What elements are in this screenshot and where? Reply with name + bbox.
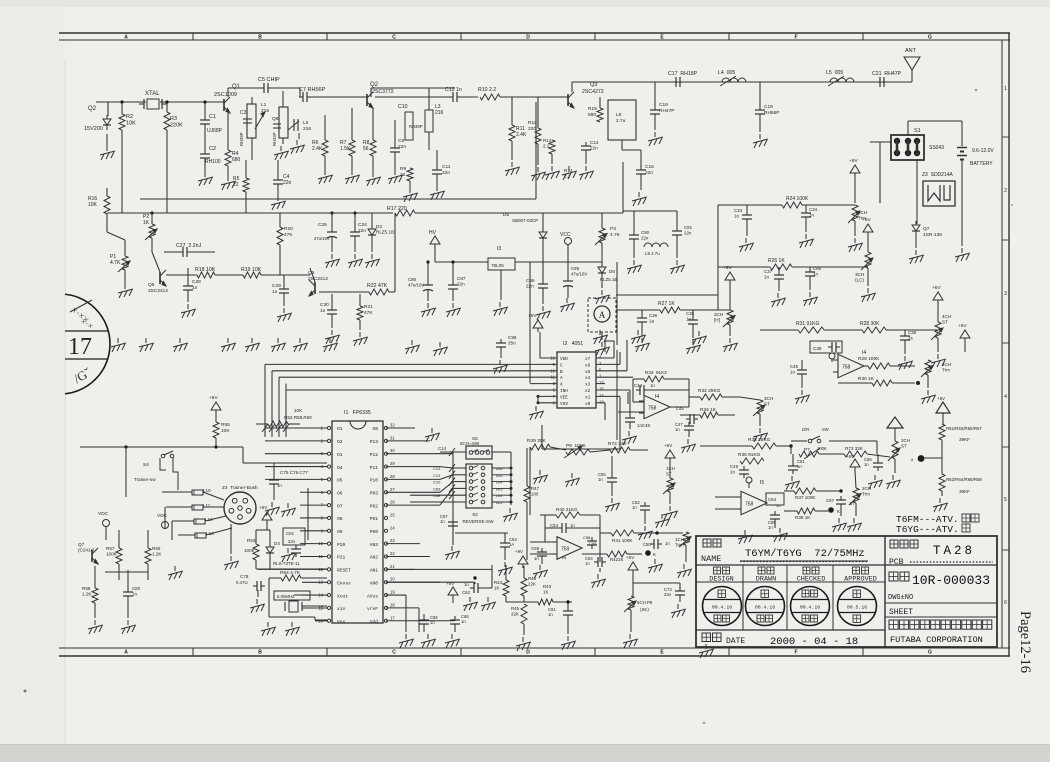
svg-text:22n: 22n <box>283 180 292 186</box>
svg-text:I3: I3 <box>497 246 501 252</box>
svg-text:00.4.18: 00.4.18 <box>755 604 775 610</box>
svg-text:R14: R14 <box>564 168 573 173</box>
svg-text:(LC): (LC) <box>855 278 864 283</box>
svg-text:2.4K: 2.4K <box>516 132 527 138</box>
svg-text:22: 22 <box>390 551 395 556</box>
svg-text:100K: 100K <box>244 548 256 553</box>
svg-text:R37 100K: R37 100K <box>795 495 816 500</box>
svg-text:1n: 1n <box>790 369 795 374</box>
svg-text:P20: P20 <box>337 542 346 548</box>
svg-text:ch3: ch3 <box>496 486 503 491</box>
svg-text:C11: C11 <box>442 164 451 170</box>
svg-text:INH: INH <box>560 389 568 394</box>
svg-text:22n: 22n <box>590 146 598 151</box>
svg-text:ST: ST <box>942 320 948 325</box>
svg-text:C69: C69 <box>433 486 441 491</box>
svg-text:DATE: DATE <box>726 637 745 646</box>
svg-text:I5: I5 <box>562 555 566 561</box>
svg-text:1: 1 <box>1004 86 1007 92</box>
svg-text:C: C <box>392 35 396 41</box>
svg-text:56: 56 <box>363 146 369 152</box>
svg-text:B: B <box>258 35 262 41</box>
svg-text:1a: 1a <box>649 318 654 323</box>
svg-text:2.7u: 2.7u <box>616 118 626 124</box>
svg-text:C39: C39 <box>908 330 917 335</box>
svg-text:R3: R3 <box>170 116 177 122</box>
svg-text:1n: 1n <box>734 213 739 218</box>
svg-text:39KF: 39KF <box>959 437 970 442</box>
svg-text:R47: R47 <box>531 486 540 491</box>
svg-text:D3: D3 <box>376 224 382 229</box>
svg-text:C87: C87 <box>457 276 466 281</box>
svg-text:22n: 22n <box>684 230 692 235</box>
svg-text:32: 32 <box>390 423 395 428</box>
svg-text:3CH: 3CH <box>858 210 867 215</box>
svg-text:26: 26 <box>390 500 395 505</box>
svg-text:2SC2412: 2SC2412 <box>308 276 328 282</box>
svg-text:C5 CHIP: C5 CHIP <box>258 77 280 83</box>
svg-text:C78: C78 <box>240 574 249 579</box>
svg-text:O6: O6 <box>337 490 343 496</box>
svg-text:DESIGN: DESIGN <box>709 576 733 584</box>
svg-text:22n: 22n <box>526 284 534 289</box>
svg-text:1n: 1n <box>632 505 637 510</box>
svg-text:Trm: Trm <box>862 492 870 497</box>
svg-text:UJ68P: UJ68P <box>207 128 223 134</box>
svg-text:1n: 1n <box>665 541 670 546</box>
svg-text:F: F <box>794 35 797 41</box>
svg-text:1K: 1K <box>543 589 548 594</box>
svg-text:C30: C30 <box>320 302 329 308</box>
svg-text:C29: C29 <box>272 283 281 289</box>
svg-text:C96: C96 <box>508 335 517 340</box>
svg-text:1n: 1n <box>809 212 814 217</box>
svg-text:14: 14 <box>599 393 604 398</box>
svg-text:R53: R53 <box>247 538 256 543</box>
svg-text:00.5.16: 00.5.16 <box>847 604 867 610</box>
svg-text:I2 4051: I2 4051 <box>563 341 583 347</box>
svg-text:Xout: Xout <box>337 593 348 599</box>
svg-text:Z4 Trainer-Bush: Z4 Trainer-Bush <box>222 485 258 491</box>
svg-text:1n: 1n <box>797 464 802 469</box>
svg-text:APPROVED: APPROVED <box>844 576 877 584</box>
svg-text:1.2K: 1.2K <box>152 552 162 557</box>
svg-text:RLS-73TE-11: RLS-73TE-11 <box>273 561 300 566</box>
svg-text:O2: O2 <box>337 439 343 445</box>
svg-text:6: 6 <box>1004 600 1007 606</box>
svg-text:758: 758 <box>842 365 851 371</box>
svg-text:3: 3 <box>1004 291 1007 297</box>
svg-text:31: 31 <box>390 435 395 440</box>
svg-text:216: 216 <box>303 126 311 132</box>
svg-text:R56: R56 <box>152 546 161 551</box>
svg-text:22n: 22n <box>457 282 465 287</box>
svg-text:1.2K: 1.2K <box>82 592 92 597</box>
svg-text:R33 91K3: R33 91K3 <box>645 370 667 375</box>
svg-text:1n: 1n <box>686 316 691 321</box>
svg-text:Cnvss: Cnvss <box>337 580 351 586</box>
svg-text:R29 100K: R29 100K <box>858 356 880 362</box>
svg-text:L9 2.7u: L9 2.7u <box>645 251 660 256</box>
svg-text:C14: C14 <box>590 140 599 145</box>
svg-text:R43: R43 <box>494 580 503 585</box>
svg-text:1n: 1n <box>570 523 575 528</box>
svg-text:VCC: VCC <box>560 232 571 238</box>
svg-text:Q3: Q3 <box>590 82 597 88</box>
svg-text:R52,R59,R60: R52,R59,R60 <box>284 415 312 420</box>
svg-text:L6: L6 <box>616 112 622 118</box>
svg-text:22n: 22n <box>442 170 450 176</box>
svg-text:22n: 22n <box>288 539 296 544</box>
svg-text:22: 22 <box>233 182 239 188</box>
svg-text:C84: C84 <box>768 497 777 502</box>
svg-text:4CH: 4CH <box>942 362 951 367</box>
svg-text:DWG±NO: DWG±NO <box>888 594 913 602</box>
svg-text:R38 1K: R38 1K <box>795 515 811 520</box>
svg-text:C21 RH47P: C21 RH47P <box>872 71 902 77</box>
svg-text:R421K: R421K <box>610 557 623 562</box>
svg-text:24: 24 <box>390 525 395 530</box>
svg-text:1n: 1n <box>430 620 435 625</box>
svg-text:Q7: Q7 <box>78 542 85 547</box>
svg-text:2CH: 2CH <box>901 438 910 443</box>
svg-text:I5: I5 <box>760 480 764 486</box>
svg-text:D: D <box>526 650 530 656</box>
svg-text:O0: O0 <box>372 426 378 432</box>
svg-text:C36: C36 <box>649 313 658 318</box>
svg-text:3CH: 3CH <box>714 312 723 317</box>
svg-text:+6V: +6V <box>626 555 635 560</box>
svg-text:C7 RH56P: C7 RH56P <box>299 87 326 93</box>
svg-text:L1: L1 <box>261 102 267 108</box>
svg-text:22K: 22K <box>511 611 519 616</box>
svg-text:SS043: SS043 <box>929 145 944 151</box>
svg-text:220: 220 <box>528 126 536 132</box>
svg-text:22n: 22n <box>358 228 366 234</box>
svg-text:+6V: +6V <box>958 323 967 329</box>
svg-text:G: G <box>928 650 932 656</box>
svg-text:R43: R43 <box>543 584 552 589</box>
svg-text:A: A <box>599 310 606 320</box>
svg-text:759: 759 <box>561 547 570 553</box>
svg-text:C18: C18 <box>659 102 668 108</box>
svg-text:1K: 1K <box>143 220 150 226</box>
svg-text:+6V: +6V <box>862 217 871 223</box>
svg-text:17: 17 <box>390 615 395 620</box>
svg-text:+9V: +9V <box>515 549 523 554</box>
svg-text:I1 FP6335: I1 FP6335 <box>344 410 371 416</box>
svg-text:D5: D5 <box>503 212 509 218</box>
svg-text:22n: 22n <box>645 170 653 176</box>
svg-text:R34 1K: R34 1K <box>700 407 717 413</box>
svg-text:L4 005: L4 005 <box>718 70 735 76</box>
svg-text:ST: ST <box>764 402 770 407</box>
svg-text:C9: C9 <box>398 138 404 144</box>
svg-text:C38: C38 <box>813 346 822 351</box>
svg-text:19: 19 <box>390 590 395 595</box>
svg-text:00.4.18: 00.4.18 <box>800 604 820 610</box>
svg-text:R27 1K: R27 1K <box>658 301 675 307</box>
svg-text:22n: 22n <box>641 235 649 240</box>
svg-text:1n: 1n <box>813 271 818 276</box>
svg-text:AVss: AVss <box>367 593 378 599</box>
svg-text:C49: C49 <box>730 464 739 469</box>
svg-text:AN1: AN1 <box>370 568 379 574</box>
svg-text:15V200: 15V200 <box>84 126 103 132</box>
svg-text:A: A <box>124 650 128 656</box>
svg-text:21: 21 <box>390 564 395 569</box>
svg-text:I4: I4 <box>862 350 866 356</box>
svg-text:P6 100K: P6 100K <box>566 443 587 449</box>
svg-text:758: 758 <box>648 406 657 412</box>
svg-text:D6: D6 <box>609 269 615 274</box>
svg-text:758: 758 <box>745 502 754 508</box>
svg-text:R30 1K: R30 1K <box>858 376 875 382</box>
svg-text:2.2: 2.2 <box>543 144 550 149</box>
svg-text:28: 28 <box>390 474 395 479</box>
svg-text:C89: C89 <box>571 266 580 271</box>
svg-text:x3: x3 <box>585 383 591 388</box>
svg-text:+6V: +6V <box>846 454 854 459</box>
svg-text:VDD: VDD <box>560 357 568 362</box>
svg-text:VDC: VDC <box>98 511 109 517</box>
svg-text:R20: R20 <box>284 226 293 232</box>
svg-text:2SC4272: 2SC4272 <box>582 89 604 95</box>
svg-text:S1: S1 <box>914 128 921 134</box>
svg-text:SB007-03CP: SB007-03CP <box>512 218 538 223</box>
svg-text:RH39P: RH39P <box>409 124 423 129</box>
svg-text:A: A <box>124 35 128 41</box>
svg-text:C12 1n: C12 1n <box>445 87 462 93</box>
svg-text:47K: 47K <box>284 232 293 238</box>
svg-text:RH33P: RH33P <box>272 132 277 146</box>
svg-text:1SR-139: 1SR-139 <box>923 232 942 238</box>
svg-text:1nC48: 1nC48 <box>637 423 650 428</box>
svg-text:[H]: [H] <box>714 318 720 323</box>
svg-text:R2: R2 <box>126 114 133 120</box>
svg-text:10K: 10K <box>221 428 230 434</box>
svg-text:T6YG---ATV.: T6YG---ATV. <box>896 524 959 535</box>
svg-text:O8: O8 <box>337 516 343 522</box>
svg-text:4CH: 4CH <box>942 314 951 319</box>
svg-text:C66: C66 <box>526 278 535 283</box>
svg-text:B: B <box>560 370 563 375</box>
svg-text:C15: C15 <box>645 164 654 170</box>
svg-text:17: 17 <box>68 334 92 360</box>
svg-text:B: B <box>258 650 262 656</box>
svg-text:+6V: +6V <box>849 158 858 164</box>
svg-text:BATTERY: BATTERY <box>970 161 993 167</box>
svg-text:(SK): (SK) <box>640 607 649 612</box>
svg-text:O7: O7 <box>337 503 343 509</box>
svg-text:1n: 1n <box>598 477 603 482</box>
svg-text:Vss: Vss <box>337 619 346 625</box>
svg-text:1n: 1n <box>461 619 466 624</box>
svg-text:6CH P8: 6CH P8 <box>637 600 653 605</box>
svg-text:D4: D4 <box>274 541 280 546</box>
svg-text:O1: O1 <box>337 452 343 458</box>
svg-text:x4: x4 <box>585 376 591 381</box>
svg-text:R32 25KG: R32 25KG <box>698 388 721 394</box>
svg-text:2000 - 04 - 18: 2000 - 04 - 18 <box>770 636 858 648</box>
svg-text:VDC: VDC <box>157 513 168 519</box>
svg-text:C86: C86 <box>408 277 417 282</box>
svg-text:20: 20 <box>390 577 395 582</box>
svg-text:2SC2412: 2SC2412 <box>148 288 168 294</box>
svg-text:C25: C25 <box>318 222 327 228</box>
svg-text:x0: x0 <box>585 402 591 407</box>
svg-text:39KF: 39KF <box>959 489 970 494</box>
svg-text:C10: C10 <box>433 480 441 485</box>
svg-text:1K: 1K <box>494 585 499 590</box>
svg-text:A: A <box>560 376 563 381</box>
svg-text:C90: C90 <box>641 230 650 235</box>
svg-text:PCB: PCB <box>889 558 904 567</box>
svg-text:C: C <box>392 650 396 656</box>
svg-text:C45: C45 <box>790 364 799 369</box>
svg-text:00.4.18: 00.4.18 <box>712 604 732 610</box>
svg-text:Q7: Q7 <box>923 226 930 232</box>
svg-text:30: 30 <box>390 448 395 453</box>
svg-text:S4: S4 <box>143 462 149 468</box>
svg-text:1n: 1n <box>464 582 469 587</box>
svg-text:P13: P13 <box>370 439 379 445</box>
svg-text:+6V: +6V <box>932 285 941 291</box>
svg-text:1n: 1n <box>768 525 773 530</box>
svg-text:C58: C58 <box>583 535 591 540</box>
svg-text:RESET: RESET <box>337 568 351 574</box>
svg-text:216: 216 <box>435 110 444 116</box>
svg-text:25: 25 <box>390 512 395 517</box>
svg-text:R41 100K: R41 100K <box>612 538 633 543</box>
svg-text:+6V: +6V <box>259 505 268 510</box>
svg-text:VEE: VEE <box>560 395 568 400</box>
svg-text:C44: C44 <box>634 383 643 388</box>
svg-text:C1: C1 <box>209 114 216 120</box>
svg-text:C34: C34 <box>809 207 818 212</box>
svg-text:RH100: RH100 <box>205 159 221 165</box>
svg-text:1n: 1n <box>864 462 869 467</box>
svg-text:Page12-16: Page12-16 <box>1017 611 1033 673</box>
svg-text:P00: P00 <box>370 529 379 535</box>
svg-text:C80: C80 <box>132 586 141 591</box>
svg-text:Q2: Q2 <box>370 82 379 88</box>
svg-text:R35 25KG: R35 25KG <box>748 437 771 443</box>
svg-text:K: K <box>653 552 656 557</box>
svg-text:R62/R64/R66/R68: R62/R64/R66/R68 <box>946 477 982 482</box>
svg-text:P7: P7 <box>804 447 810 452</box>
svg-text:R55: R55 <box>221 422 230 428</box>
svg-text:P11: P11 <box>370 465 379 471</box>
svg-text:C17 RH18P: C17 RH18P <box>668 71 698 77</box>
svg-text:4.7K: 4.7K <box>110 260 121 266</box>
svg-text:R17 220: R17 220 <box>387 206 407 212</box>
svg-text:C3: C3 <box>240 110 247 116</box>
svg-text:x5: x5 <box>585 370 591 375</box>
svg-text:22K: 22K <box>528 581 536 586</box>
svg-text:RH47P: RH47P <box>659 108 674 114</box>
svg-text:15: 15 <box>599 387 604 392</box>
svg-text:78L05: 78L05 <box>491 263 504 268</box>
svg-text:AN2: AN2 <box>370 555 379 561</box>
svg-text:C27 2.2nJ: C27 2.2nJ <box>176 243 201 249</box>
svg-text:xin: xin <box>337 606 346 612</box>
svg-text:I4: I4 <box>655 394 659 400</box>
svg-text:HV: HV <box>429 230 437 236</box>
svg-text:ch6: ch6 <box>496 466 503 471</box>
svg-text:RLZ5.1B: RLZ5.1B <box>376 230 394 235</box>
svg-text:ANT: ANT <box>905 48 917 54</box>
svg-text:AN0: AN0 <box>370 580 379 586</box>
svg-text:100: 100 <box>531 491 539 496</box>
svg-text:C81: C81 <box>286 531 295 536</box>
svg-text:C75.C76.C77: C75.C76.C77 <box>280 470 308 475</box>
svg-text:10K: 10K <box>294 408 303 413</box>
svg-text:23: 23 <box>390 538 395 543</box>
svg-text:1n: 1n <box>192 285 198 291</box>
svg-text:+6V: +6V <box>937 396 945 401</box>
svg-text:12: 12 <box>599 380 604 385</box>
svg-text:S2: S2 <box>472 512 478 517</box>
svg-text:R57: R57 <box>106 546 115 551</box>
svg-text:ch4: ch4 <box>496 480 503 485</box>
svg-text:2SC1009: 2SC1009 <box>214 92 237 98</box>
svg-text:P02: P02 <box>370 503 379 509</box>
svg-text:O1: O1 <box>337 426 343 432</box>
svg-text:22: 22 <box>400 172 406 178</box>
svg-text:1n: 1n <box>650 383 655 388</box>
svg-text:680: 680 <box>588 112 596 118</box>
svg-text:G: G <box>928 35 932 41</box>
svg-text:R18 10K: R18 10K <box>195 267 216 273</box>
svg-text:1n: 1n <box>776 503 780 508</box>
svg-text:R54 4.7K: R54 4.7K <box>280 570 301 576</box>
svg-text:R24 100K: R24 100K <box>786 196 809 202</box>
svg-text:C14: C14 <box>438 446 447 451</box>
svg-text:Z3 SDD214A: Z3 SDD214A <box>922 172 954 178</box>
svg-text:1n: 1n <box>730 469 735 474</box>
svg-text:C13: C13 <box>433 473 441 478</box>
svg-text:13: 13 <box>599 399 604 404</box>
svg-text:2SC3772: 2SC3772 <box>372 89 394 95</box>
svg-text:P01: P01 <box>370 516 379 522</box>
svg-text:F: F <box>794 650 797 656</box>
svg-text:T6YM/T6YG 72/75MHz: T6YM/T6YG 72/75MHz <box>745 548 865 560</box>
svg-text:R31 91KG: R31 91KG <box>796 321 819 327</box>
svg-text:P03: P03 <box>370 490 379 496</box>
svg-text:R73 33K: R73 33K <box>845 446 864 451</box>
svg-text:1s: 1s <box>908 335 913 340</box>
svg-text:R21: R21 <box>364 304 373 310</box>
svg-text:1n: 1n <box>675 427 680 432</box>
svg-text:C91: C91 <box>684 225 693 230</box>
svg-text:X: X <box>560 383 563 388</box>
svg-text:R13: R13 <box>543 138 552 143</box>
svg-text:O9: O9 <box>337 529 343 535</box>
svg-text:x2: x2 <box>585 389 591 394</box>
svg-text:x1: x1 <box>585 395 591 400</box>
svg-text:R15: R15 <box>588 106 597 112</box>
svg-text:C59: C59 <box>531 546 540 551</box>
svg-text:47u/16V: 47u/16V <box>408 282 424 287</box>
svg-text:2.2: 2.2 <box>564 174 571 179</box>
svg-text:R22 47K: R22 47K <box>367 283 388 289</box>
svg-text:R9: R9 <box>400 166 406 172</box>
svg-text:ST: ST <box>901 444 907 449</box>
svg-text:22n: 22n <box>398 144 406 150</box>
svg-text:47u/16V: 47u/16V <box>571 271 587 276</box>
svg-text:XTAL: XTAL <box>145 91 160 97</box>
